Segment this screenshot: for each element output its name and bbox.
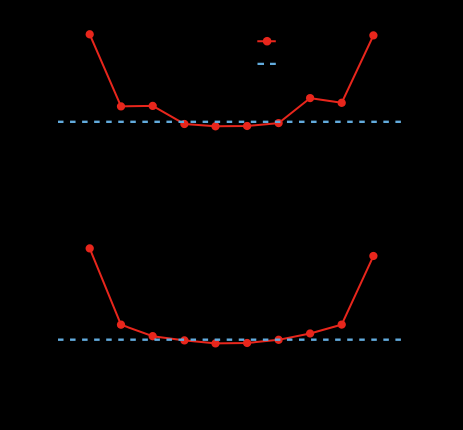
- legend blue dashed handle: [258, 63, 276, 65]
- top series line: [90, 34, 374, 126]
- bottom dashed reference line: [58, 339, 401, 341]
- bottom series markers: [86, 244, 378, 347]
- bottom series line: [90, 248, 374, 343]
- top dashed reference line: [58, 121, 401, 123]
- legend red marker: [263, 37, 272, 46]
- top series markers: [86, 30, 378, 130]
- legend red line handle: [257, 40, 276, 42]
